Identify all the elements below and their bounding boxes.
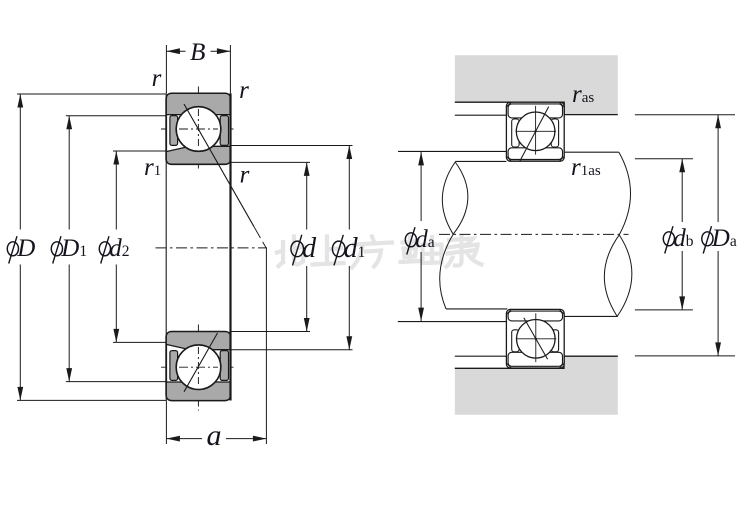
svg-text:a: a bbox=[207, 419, 222, 452]
svg-text:r: r bbox=[239, 77, 249, 104]
svg-text:D: D bbox=[16, 235, 35, 262]
svg-text:r: r bbox=[240, 162, 250, 189]
svg-text:r: r bbox=[152, 65, 162, 92]
svg-text:B: B bbox=[190, 39, 205, 66]
svg-text:d: d bbox=[302, 233, 317, 264]
